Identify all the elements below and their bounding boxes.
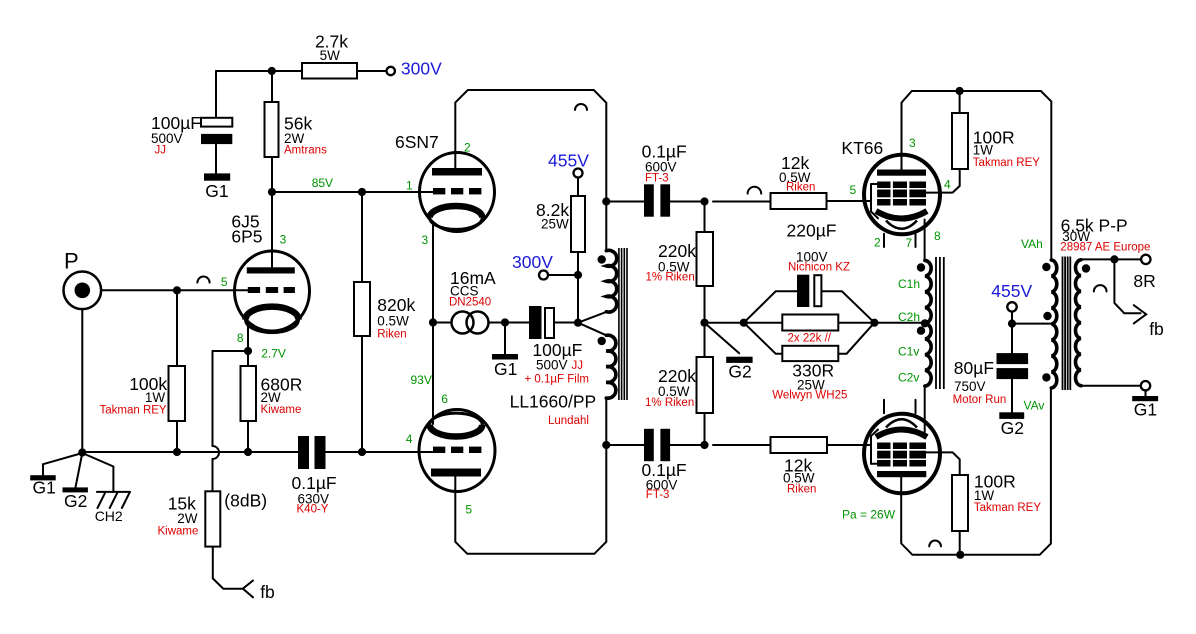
svg-text:G2: G2: [728, 362, 751, 382]
svg-text:8: 8: [237, 331, 244, 345]
svg-text:P: P: [64, 248, 79, 273]
svg-text:Kiwame: Kiwame: [158, 526, 199, 538]
svg-text:5: 5: [850, 183, 857, 197]
svg-text:LL1660/PP: LL1660/PP: [510, 392, 597, 412]
svg-text:2x 22k //: 2x 22k //: [788, 333, 832, 345]
svg-text:2: 2: [874, 236, 881, 250]
svg-text:Welwyn WH25: Welwyn WH25: [772, 390, 847, 402]
svg-text:1W: 1W: [974, 488, 995, 503]
svg-text:Nichicon KZ: Nichicon KZ: [788, 262, 850, 274]
svg-text:FT-3: FT-3: [645, 173, 669, 185]
svg-text:220µF: 220µF: [787, 221, 837, 241]
svg-text:Motor Run: Motor Run: [953, 394, 1007, 406]
svg-text:G1: G1: [494, 359, 517, 379]
svg-text:93V: 93V: [411, 373, 432, 387]
svg-text:+ 0.1µF Film: + 0.1µF Film: [525, 374, 589, 386]
svg-text:Riken: Riken: [786, 182, 815, 194]
svg-text:DN2540: DN2540: [449, 297, 491, 309]
svg-text:CH2: CH2: [95, 508, 123, 524]
svg-text:1W: 1W: [145, 390, 166, 405]
svg-text:2.7V: 2.7V: [261, 347, 286, 361]
svg-text:C1v: C1v: [898, 345, 919, 359]
svg-text:C2h: C2h: [898, 310, 920, 324]
svg-text:Kiwame: Kiwame: [261, 404, 302, 416]
svg-text:8R: 8R: [1133, 271, 1155, 291]
svg-text:500V: 500V: [536, 358, 568, 373]
svg-text:220k: 220k: [658, 366, 696, 386]
svg-text:Takman REY: Takman REY: [974, 502, 1041, 514]
svg-text:7: 7: [906, 236, 913, 250]
svg-text:2W: 2W: [177, 511, 198, 526]
svg-text:300V: 300V: [512, 252, 553, 272]
svg-text:KT66: KT66: [841, 138, 883, 158]
svg-text:80µF: 80µF: [954, 358, 994, 378]
svg-text:25W: 25W: [541, 217, 569, 232]
svg-text:G1: G1: [1134, 400, 1157, 420]
svg-text:VAh: VAh: [1021, 237, 1043, 251]
svg-text:5W: 5W: [320, 48, 341, 63]
svg-text:Takman REY: Takman REY: [973, 157, 1040, 169]
svg-text:Riken: Riken: [787, 484, 816, 496]
svg-text:Lundahl: Lundahl: [548, 415, 589, 427]
svg-text:1: 1: [406, 179, 413, 193]
svg-text:(8dB): (8dB): [224, 491, 267, 511]
svg-text:4: 4: [944, 178, 951, 192]
svg-text:820k: 820k: [377, 295, 415, 315]
svg-text:JJ: JJ: [155, 145, 167, 157]
svg-text:85V: 85V: [312, 176, 333, 190]
svg-text:VAv: VAv: [1024, 399, 1045, 413]
svg-text:220k: 220k: [658, 241, 696, 261]
svg-text:FT-3: FT-3: [646, 489, 670, 501]
svg-text:fb: fb: [260, 582, 275, 602]
svg-text:6SN7: 6SN7: [395, 132, 439, 152]
svg-text:fb: fb: [1149, 319, 1164, 339]
svg-text:3: 3: [422, 233, 429, 247]
svg-text:G2: G2: [1001, 418, 1024, 438]
svg-text:100µF: 100µF: [151, 113, 201, 133]
svg-text:K40-Y: K40-Y: [297, 504, 329, 516]
svg-text:Takman REY: Takman REY: [100, 405, 167, 417]
svg-text:300V: 300V: [401, 59, 442, 79]
svg-text:455V: 455V: [991, 281, 1032, 301]
svg-text:Riken: Riken: [377, 329, 406, 341]
svg-text:0.5W: 0.5W: [377, 314, 409, 329]
svg-text:455V: 455V: [548, 151, 589, 171]
svg-text:G1: G1: [205, 181, 228, 201]
svg-text:1W: 1W: [973, 143, 994, 158]
svg-text:6: 6: [441, 392, 448, 406]
svg-text:0.1µF: 0.1µF: [642, 142, 687, 162]
svg-text:Amtrans: Amtrans: [284, 145, 327, 157]
svg-text:0.1µF: 0.1µF: [292, 473, 337, 493]
svg-text:4: 4: [406, 432, 413, 446]
svg-text:5: 5: [221, 275, 228, 289]
svg-text:C2v: C2v: [898, 371, 919, 385]
svg-text:Pa = 26W: Pa = 26W: [842, 508, 896, 522]
svg-text:1% Riken: 1% Riken: [646, 272, 695, 284]
svg-text:2: 2: [464, 141, 471, 155]
svg-text:1% Riken: 1% Riken: [645, 397, 694, 409]
svg-text:C1h: C1h: [898, 277, 920, 291]
svg-text:3: 3: [280, 233, 287, 247]
svg-text:5: 5: [465, 503, 472, 517]
svg-text:G1: G1: [33, 478, 56, 498]
svg-text:28987 AE Europe: 28987 AE Europe: [1060, 242, 1150, 254]
svg-text:3: 3: [909, 136, 916, 150]
svg-text:8: 8: [934, 229, 941, 243]
svg-text:G2: G2: [64, 491, 87, 511]
svg-text:6P5: 6P5: [231, 227, 262, 247]
svg-text:2W: 2W: [261, 390, 282, 405]
svg-text:JJ: JJ: [572, 360, 584, 372]
svg-text:750V: 750V: [954, 379, 986, 394]
